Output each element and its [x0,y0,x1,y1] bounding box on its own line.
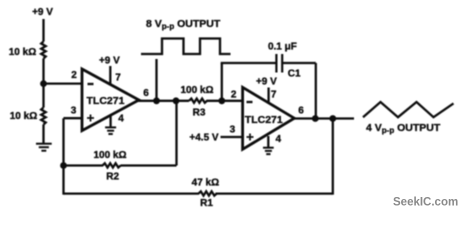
wire R1 right segment [216,192,333,194]
svg-text:100 kΩ: 100 kΩ [93,150,126,161]
junction dot square-wave probe [153,97,160,104]
wire U1 output to U2 pin 2 [137,100,189,102]
svg-text:6: 6 [298,106,304,117]
wire U1 pin 4 stub [109,116,111,127]
svg-text:0.1 μF: 0.1 μF [268,41,297,52]
node junction dot at R2 left [60,162,67,169]
svg-text:10 kΩ: 10 kΩ [9,47,36,58]
wire R2 right segment [121,164,177,166]
U2 inverting input marker [247,101,253,103]
resistor R2 100k [103,163,121,167]
resistor 10k lower (vertical) [41,108,46,125]
resistor R1 47k [199,191,217,195]
svg-text:R2: R2 [106,171,119,182]
svg-text:+4.5 V: +4.5 V [189,133,219,144]
svg-text:R1: R1 [200,198,213,209]
svg-text:100 kΩ: 100 kΩ [180,85,213,96]
wire C1 right horizontal [282,62,316,64]
svg-text:3: 3 [230,125,236,136]
ground U1 pin 4 [105,127,116,134]
wire U2 pin 4 stub [267,136,269,147]
wire R2 left segment [64,164,104,166]
ground (left rail) [36,144,52,151]
svg-text:TLC271: TLC271 [87,95,125,107]
svg-text:R3: R3 [193,108,206,119]
svg-text:TLC271: TLC271 [245,114,283,126]
wire node A to U1 pin 2 [44,82,84,84]
svg-text:+9 V: +9 V [256,77,277,88]
svg-text:2: 2 [71,70,77,81]
svg-text:+9 V: +9 V [32,7,53,18]
wire R1 right leg down [332,119,334,195]
resistor 10k upper (vertical) [41,42,46,59]
svg-text:+9 V: +9 V [99,55,120,66]
wire corner down to bottom rail [62,118,64,194]
wire +4.5V to U2 pin 3 [221,136,244,138]
svg-text:C1: C1 [288,69,301,80]
junction dot R1 right [329,115,336,122]
svg-text:4: 4 [276,134,282,145]
capacitor C1 0.1uF [276,54,282,73]
ground U2 pin 4 [263,148,274,154]
wire U2 pin 7 [267,88,269,104]
node A junction dot [40,80,47,87]
wire U1 pin 3 to left corner [64,117,84,119]
svg-text:8 Vp-p OUTPUT: 8 Vp-p OUTPUT [146,18,221,31]
svg-text:4 Vp-p OUTPUT: 4 Vp-p OUTPUT [366,122,441,135]
wire R1 left segment [64,192,200,194]
svg-text:SeekIC.com: SeekIC.com [393,197,458,209]
svg-text:3: 3 [71,106,77,117]
U1 non-inverting input marker [87,115,94,122]
junction dot C1 left [218,97,225,104]
wire U1 pin 7 [109,66,111,86]
wire C1 left leg up [221,63,223,101]
wire C1 right leg down [315,63,317,119]
triangle wave symbol [363,102,454,117]
U1 inverting input marker [88,83,94,85]
resistor R3 100k [189,99,207,103]
svg-text:7: 7 [271,89,277,100]
wire R2 up to U1 output [175,101,177,166]
wire R bottom to ground [42,125,44,144]
wire R bottom to node A and onward [42,59,44,108]
U2 non-inverting input marker [247,134,254,141]
svg-text:7: 7 [115,73,121,84]
wire C1 left horizontal [221,62,277,64]
svg-text:2: 2 [231,90,237,101]
op-amp U2 TLC271 [243,87,295,149]
svg-text:6: 6 [143,88,149,99]
op-amp U1 TLC271 [82,69,139,131]
svg-text:10 kΩ: 10 kΩ [10,111,37,122]
wire U2 output [293,117,355,119]
junction dot R2 feedback [173,97,180,104]
wire +9V down to R top [42,19,44,42]
junction dot C1 right [312,115,319,122]
wire probe up [155,59,157,101]
svg-text:47 kΩ: 47 kΩ [192,178,219,189]
svg-text:4: 4 [118,114,124,125]
square wave symbol [141,39,231,55]
